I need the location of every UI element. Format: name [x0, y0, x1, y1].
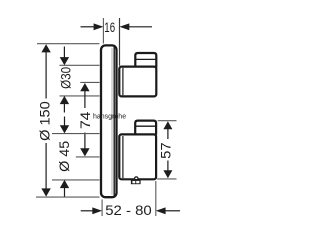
- dim Ø45: bottom arrow (outside, pointing up): [60, 180, 69, 188]
- dim 52-80: right extension line: [155, 181, 157, 216]
- wall plate (escutcheon side profile): [101, 45, 117, 197]
- bottom unit head: [135, 121, 156, 135]
- dim 52-80: left extension line: [101, 200, 103, 217]
- top handle head: [135, 53, 156, 68]
- svg-text:Ø30: Ø30: [58, 67, 73, 89]
- dim 74: bottom extension line: [76, 156, 100, 158]
- dim 57: top extension line: [158, 120, 177, 122]
- dim Ø45: top extension line: [52, 133, 100, 135]
- svg-text:16: 16: [104, 20, 115, 35]
- dim Ø150: dimension line lower segment with down arrow: [45, 143, 47, 189]
- svg-text:hansgrohe: hansgrohe: [93, 113, 126, 120]
- dim 57: bottom extension line: [157, 178, 176, 180]
- dim 57: down arrow: [167, 161, 169, 172]
- dim Ø30: top extension line: [60, 64, 100, 66]
- dim Ø30: bottom extension line: [60, 95, 100, 97]
- plate face highlight line (gray): [111, 48, 113, 195]
- dim Ø150: bottom extension line: [36, 196, 100, 198]
- dim 74: top arrow (pointing up): [80, 83, 89, 91]
- dim 57: up arrow: [163, 121, 172, 129]
- dim Ø150: dimension line upper segment with up arrow: [41, 44, 50, 52]
- plate face edge line: [113, 47, 115, 196]
- dim 74: top extension line: [80, 81, 99, 83]
- bottom unit tab (black with two holes): [131, 180, 141, 184]
- svg-text:74: 74: [78, 111, 93, 129]
- svg-text:57: 57: [159, 142, 174, 159]
- dim Ø30: top arrow (outside, pointing down): [63, 47, 65, 58]
- dim Ø45: top arrow (outside, pointing down): [64, 117, 66, 126]
- dim 16: left arrow and tail: [81, 26, 96, 28]
- dim 16: extension lines: [102, 18, 104, 44]
- top handle collar line: [122, 68, 124, 96]
- dim Ø150: top extension line: [37, 43, 100, 45]
- bottom unit body: [119, 134, 156, 179]
- top handle body: [119, 67, 156, 97]
- dim Ø45: bottom extension line: [52, 179, 100, 181]
- bottom unit collar line: [122, 136, 124, 178]
- svg-text:Ø 45: Ø 45: [57, 141, 72, 172]
- dim 16: right arrow and tail: [128, 26, 152, 28]
- svg-text:Ø 150: Ø 150: [38, 101, 53, 140]
- bottom unit bump on underside: [135, 177, 139, 179]
- dim 52-80: right arrow and tail: [164, 210, 180, 212]
- bottom unit head groove line: [135, 125, 156, 127]
- dim 74: bottom arrow (pointing down): [84, 133, 86, 150]
- top handle head groove line: [135, 58, 156, 60]
- dim Ø30: bottom arrow (outside, pointing up): [60, 96, 69, 104]
- dim 52-80: left arrow and tail: [81, 210, 94, 212]
- svg-text:52 - 80: 52 - 80: [105, 203, 152, 218]
